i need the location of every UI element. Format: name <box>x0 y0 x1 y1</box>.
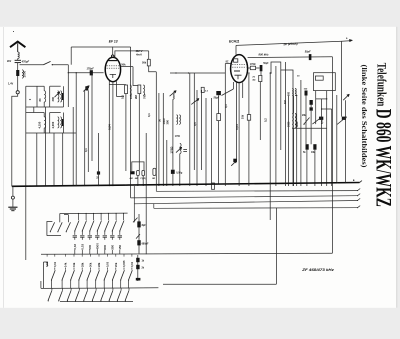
switch lever 20k <box>304 118 310 125</box>
svg-text:800: 800 <box>103 244 107 249</box>
trimmer arrow T3 <box>170 91 177 97</box>
svg-text:0,5: 0,5 <box>320 120 324 124</box>
tube ECH11 envelope <box>231 55 248 83</box>
svg-text:0,5: 0,5 <box>193 122 197 126</box>
EF13 bottom pins <box>108 81 110 186</box>
capacitor 170pF <box>90 70 93 75</box>
capacitor 50pF dark 3 <box>216 91 221 95</box>
resistor R3 2M <box>138 85 141 94</box>
svg-text:50pF: 50pF <box>305 51 311 54</box>
wire <box>67 65 69 73</box>
svg-text:50k: 50k <box>121 63 126 67</box>
svg-text:2M: 2M <box>134 94 138 99</box>
resistor R4 50k <box>147 59 150 66</box>
capacitor dark AM <box>130 171 134 174</box>
ECH11 triode <box>234 70 240 72</box>
svg-text:ZF 468/473 kHz: ZF 468/473 kHz <box>301 267 334 272</box>
wire <box>98 133 100 186</box>
svg-text:50: 50 <box>158 119 162 122</box>
svg-text:0,2: 0,2 <box>264 118 268 122</box>
trimmer arrow T9 <box>343 94 349 100</box>
capacitor dark 25 <box>97 171 100 174</box>
resistor 45 <box>247 115 250 121</box>
svg-text:80: 80 <box>38 98 42 102</box>
wire <box>87 91 89 173</box>
svg-text:0,04: 0,04 <box>235 124 239 130</box>
svg-text:150: 150 <box>118 244 122 249</box>
svg-text:30k: 30k <box>89 262 93 267</box>
wire <box>17 63 19 70</box>
terminal arrow a <box>342 40 350 43</box>
ground symbol <box>12 186 14 196</box>
padder capacitor <box>183 148 187 150</box>
trimmer arrow T4 <box>191 99 199 105</box>
svg-text:0,02: 0,02 <box>130 261 134 267</box>
bandfilter box1 row1 <box>26 85 44 87</box>
svg-text:800 kHz: 800 kHz <box>259 53 270 57</box>
bandfilter row2 box2 <box>50 112 61 114</box>
loop vertical <box>275 208 277 284</box>
svg-text:0,005: 0,005 <box>122 260 126 267</box>
bank A right column with caps <box>138 214 140 254</box>
bus junction dots <box>76 185 77 186</box>
ECH11 top pin <box>235 45 237 54</box>
svg-text:350: 350 <box>110 244 114 249</box>
ECH11 cathode <box>235 75 242 79</box>
svg-text:300: 300 <box>287 91 290 96</box>
bracket wire <box>132 162 144 171</box>
wire <box>179 154 181 186</box>
bank A switch column 7 (150) <box>123 213 125 220</box>
resistor small osc <box>201 87 204 92</box>
page left edge shadow <box>3 27 5 308</box>
IF coil row1 L16 <box>295 89 296 96</box>
svg-text:0,01: 0,01 <box>45 261 49 267</box>
resistor 2V <box>259 75 262 81</box>
ECH11 grid pin label 8C <box>225 63 230 65</box>
wire <box>63 86 65 107</box>
wire <box>145 240 147 254</box>
antenna A1 <box>10 42 25 48</box>
resistor pill P2 <box>142 170 145 175</box>
trimmer T6 below bus region <box>233 159 237 162</box>
wire <box>248 73 250 115</box>
nested AVC wires <box>271 62 293 186</box>
svg-text:14k: 14k <box>64 262 68 267</box>
wire <box>91 73 93 161</box>
EF13 cathode <box>110 74 116 78</box>
bank A left bracket <box>47 222 53 236</box>
osc coil L14 <box>180 143 181 153</box>
svg-text:8Ω: 8Ω <box>152 178 155 180</box>
wire <box>130 47 132 198</box>
svg-text:50pF: 50pF <box>263 63 269 65</box>
svg-text:0,02: 0,02 <box>53 261 57 267</box>
svg-text:100: 100 <box>129 94 133 99</box>
svg-text:1700: 1700 <box>175 136 181 138</box>
wire <box>138 94 140 171</box>
svg-text:0,1: 0,1 <box>224 104 228 108</box>
svg-text:8C: 8C <box>226 61 229 63</box>
wire pin4 <box>242 82 244 98</box>
svg-text:680pF: 680pF <box>142 243 149 246</box>
svg-text:4M: 4M <box>135 177 138 180</box>
svg-text:1000: 1000 <box>23 70 27 77</box>
svg-text:500: 500 <box>88 244 92 249</box>
wire <box>17 59 19 61</box>
resistor 170 grid stopper <box>248 67 251 69</box>
wire <box>26 132 76 134</box>
wire <box>52 64 68 66</box>
wire <box>84 91 86 187</box>
coil L2 <box>22 70 23 78</box>
svg-text:31k: 31k <box>72 262 76 267</box>
antenna coil L1 <box>18 52 20 59</box>
AVC drop vertical right <box>331 57 333 254</box>
svg-text:0,03: 0,03 <box>80 244 84 250</box>
svg-text:4Ω: 4Ω <box>252 78 255 81</box>
trimmer arrow T7 <box>319 117 323 120</box>
svg-text:20k: 20k <box>114 262 118 267</box>
bank A switch column 6 (350) <box>115 213 117 220</box>
svg-text:D 860 WK/WKZ: D 860 WK/WKZ <box>372 109 397 207</box>
bank B left bracket <box>44 262 48 288</box>
wire verticals osc <box>158 93 160 186</box>
loop bottom <box>163 283 276 285</box>
svg-text:0,03: 0,03 <box>106 261 110 267</box>
coil L5 <box>44 91 46 102</box>
wire with coupling cap <box>68 72 103 74</box>
wire <box>63 113 65 134</box>
svg-text:795: 795 <box>142 94 146 99</box>
osc coil L13 <box>179 115 180 125</box>
svg-text:4,000: 4,000 <box>51 121 55 128</box>
bank A switch column 2 (0,03) <box>85 213 87 220</box>
capacitor dark 170b <box>310 107 313 110</box>
coil L8 <box>44 117 46 128</box>
trimmer capacitor T2 <box>85 86 88 90</box>
capacitor dark row1 <box>62 93 64 100</box>
AVC line 800kHz <box>248 56 333 59</box>
bank B right caps <box>137 255 139 281</box>
EF13 grids <box>107 65 120 67</box>
anode supply line slanted <box>236 41 342 45</box>
svg-text:0,02: 0,02 <box>73 244 77 250</box>
svg-text:1,4V: 1,4V <box>8 83 13 86</box>
switch S1 lever <box>44 61 51 64</box>
svg-text:0,05µ: 0,05µ <box>176 172 183 175</box>
svg-text:28k: 28k <box>80 262 84 267</box>
EF13 screen wire with label 50k <box>121 66 133 68</box>
trimmer arrow T5 <box>176 147 182 152</box>
line b4 <box>154 207 358 210</box>
page right edge line <box>396 27 398 308</box>
wire <box>260 71 262 75</box>
capacitor bar horizontal <box>136 278 141 281</box>
svg-text:28k: 28k <box>97 262 101 267</box>
line b2 <box>131 196 358 198</box>
wire <box>259 82 261 140</box>
resistor pill P3 <box>153 168 156 175</box>
svg-text:0,1: 0,1 <box>121 95 125 99</box>
wire <box>218 95 220 113</box>
coil L9 <box>58 117 59 128</box>
coil L7 <box>60 91 61 102</box>
tube EF13 envelope <box>105 57 120 81</box>
svg-text:1300: 1300 <box>162 118 166 124</box>
coil L4 <box>143 85 144 96</box>
bandfilter box2 row1 <box>50 85 61 87</box>
svg-text:2kV: 2kV <box>7 60 12 63</box>
connector circle <box>16 91 19 94</box>
capacitor 0,05uF dark <box>171 170 175 174</box>
wire <box>137 176 139 186</box>
wire <box>224 64 226 187</box>
bank A switch column 3 (500) <box>93 213 95 220</box>
wire <box>269 73 271 220</box>
svg-text:AM: AM <box>130 177 133 180</box>
svg-text:470pF: 470pF <box>21 59 30 63</box>
wire <box>133 67 138 86</box>
wire <box>36 86 38 107</box>
capacitor 50pF dark on AVC <box>309 54 312 60</box>
IF coil row2 L17 <box>292 114 293 129</box>
wire <box>20 64 44 66</box>
IF coil row2 L18 <box>295 114 296 129</box>
wire <box>149 66 157 72</box>
EF13 anode feed wire <box>115 51 149 58</box>
bank B mid rail <box>41 287 158 290</box>
bracket levers <box>50 222 54 231</box>
svg-text:0,04: 0,04 <box>108 124 112 130</box>
bank A top rail <box>60 212 128 215</box>
osc coil L11 <box>173 93 174 99</box>
resistor R2 0,1 <box>125 85 128 94</box>
capacitor 5k dark <box>306 144 309 150</box>
resistor R1 1000 <box>16 70 19 76</box>
resistor 1W <box>217 114 221 121</box>
resistor pill P1 <box>137 170 140 175</box>
svg-text:50k: 50k <box>142 62 147 65</box>
wire <box>145 186 147 240</box>
svg-text:2E (25mA): 2E (25mA) <box>282 42 297 47</box>
capacitor dark 170a <box>310 100 313 105</box>
wire to ground bus <box>12 94 18 186</box>
IF cap dark row1 <box>305 91 308 96</box>
svg-text:0,1: 0,1 <box>147 113 151 117</box>
wire <box>26 106 64 108</box>
capacitor dark row2 <box>62 119 64 126</box>
svg-text:0,1: 0,1 <box>84 148 88 152</box>
coil L6 <box>58 91 59 102</box>
svg-text:EF 13: EF 13 <box>109 40 118 44</box>
capacitor 10k dark <box>313 144 316 150</box>
terminal box on bus <box>212 183 215 189</box>
mixer line with dots <box>170 72 225 74</box>
svg-text:Telefunken: Telefunken <box>374 63 389 107</box>
svg-text:390: 390 <box>165 120 169 125</box>
bus end tick <box>360 181 363 183</box>
main ground bus <box>12 183 360 187</box>
box small <box>315 76 323 80</box>
wire <box>218 121 220 184</box>
svg-text:170Ω: 170Ω <box>250 64 256 66</box>
trimmer arrow T8 <box>342 117 346 120</box>
svg-text:3000: 3000 <box>287 121 290 127</box>
bank A switch column 5 (800) <box>108 213 110 220</box>
wire <box>117 96 125 98</box>
svg-text:4,150: 4,150 <box>38 121 42 128</box>
svg-text:3200: 3200 <box>296 121 299 127</box>
wire <box>33 107 35 113</box>
wire <box>148 51 150 59</box>
svg-text:8pF: 8pF <box>142 224 147 227</box>
EF13 anode <box>108 60 117 62</box>
bank B bottom rail <box>60 301 133 303</box>
bank A switch column 1 (0,02) <box>78 213 80 220</box>
top-left speck <box>13 31 14 32</box>
IF coil row1 L15 <box>292 89 293 96</box>
right network verticals <box>293 96 295 114</box>
network horizontals <box>316 98 327 100</box>
bandfilter row2 box1 <box>26 112 44 114</box>
line b3 <box>134 201 357 204</box>
EF13 top pin <box>112 47 114 55</box>
wire verticals to bus <box>36 133 38 186</box>
svg-text:(linke Seite des Schaltbildes): (linke Seite des Schaltbildes) <box>360 65 369 169</box>
svg-text:170pF: 170pF <box>87 67 95 70</box>
bracket bottom wire <box>47 235 61 237</box>
IF can box outline <box>314 73 336 91</box>
bottom return line <box>41 253 332 254</box>
wire <box>109 84 126 86</box>
wire <box>17 76 19 91</box>
svg-text:4mA: 4mA <box>135 52 142 56</box>
wire <box>25 86 27 260</box>
extra mid verticals <box>285 62 287 186</box>
capacitor 50pF dark 2 <box>260 65 263 71</box>
wire <box>125 94 127 171</box>
ECH11 anode <box>234 59 238 62</box>
capacitor 470pF <box>15 59 21 61</box>
bank A switch column 4 (4000) <box>100 213 102 220</box>
line b1 <box>156 190 357 193</box>
trimmer arrow T1 <box>55 92 60 97</box>
svg-text:ECH11: ECH11 <box>229 39 240 43</box>
coil L10 <box>60 117 61 128</box>
ECH11 grids <box>232 64 246 66</box>
svg-text:4000: 4000 <box>95 243 99 250</box>
AVC top wire <box>71 46 130 48</box>
osc coil L12 <box>176 115 177 125</box>
coil L3 <box>130 85 131 96</box>
bent wire to 50pF <box>222 89 234 96</box>
svg-text:1W: 1W <box>241 114 245 119</box>
wire long vertical <box>155 72 157 186</box>
wire pins down <box>236 82 238 162</box>
grid wire riser <box>70 47 72 65</box>
ECH11 bottom pins <box>232 82 234 89</box>
